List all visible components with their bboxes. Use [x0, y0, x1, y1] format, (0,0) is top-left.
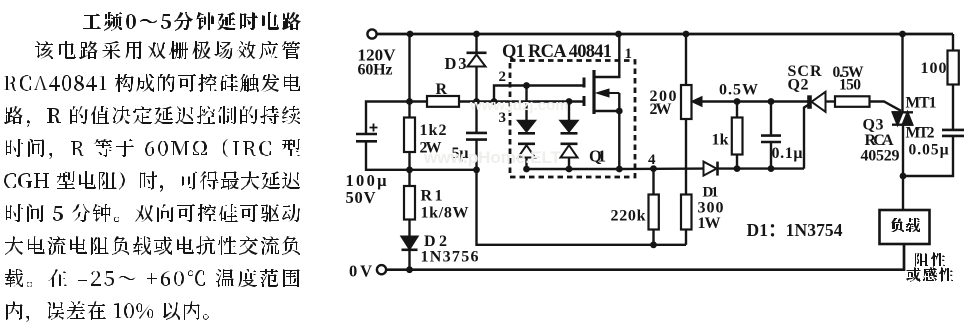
svg-text:50V: 50V — [346, 188, 376, 207]
node 0.05u return — [900, 173, 907, 180]
node 0.1u top — [768, 98, 775, 105]
svg-text:D3: D3 — [445, 54, 467, 73]
wire gate1 step — [494, 86, 584, 102]
svg-text:1k: 1k — [712, 132, 729, 149]
svg-text:60Hz: 60Hz — [358, 62, 393, 79]
wire D2 to rail — [408, 250, 410, 270]
capacitor 0.05u — [952, 85, 954, 130]
wire pin4 out — [619, 167, 704, 170]
capacitor 5u — [466, 133, 487, 140]
potentiometer 200 2W — [685, 34, 687, 85]
node top-B — [473, 31, 480, 38]
load box — [880, 210, 930, 244]
node pair2 bottom — [566, 166, 573, 173]
potentiometer wiper arrow — [693, 97, 702, 105]
svg-text:www.pHome.ELT: www.pHome.ELT — [423, 148, 562, 167]
svg-text:D1: D1 — [703, 185, 719, 201]
node top-A — [407, 31, 414, 38]
wire to R — [410, 100, 428, 102]
wire D1 to gate riser — [719, 167, 805, 169]
protection diode pair 1 — [518, 121, 535, 132]
svg-text:1k/8W: 1k/8W — [421, 205, 469, 222]
svg-text:220k: 220k — [611, 208, 646, 225]
wire 5u top — [475, 102, 477, 133]
node gate1 pair1 — [523, 82, 530, 89]
label load (fuzai) — [890, 218, 920, 232]
svg-text:0.1μ: 0.1μ — [772, 145, 803, 162]
node bottom row 220k — [650, 241, 657, 248]
resistor 150 0.5W — [835, 96, 870, 107]
mosfet Q1 drain — [595, 34, 619, 77]
wire SCR gate riser — [804, 104, 810, 169]
wire cap branch — [366, 102, 410, 134]
node rail-D2 — [406, 266, 413, 273]
wire top rail — [377, 33, 953, 36]
svg-text:100: 100 — [921, 60, 947, 77]
node mid-left — [406, 166, 413, 173]
svg-text:1: 1 — [625, 46, 633, 62]
wire 1k2 bottom — [408, 152, 410, 170]
svg-text:0.5W: 0.5W — [719, 82, 758, 99]
svg-text:Q2: Q2 — [788, 77, 809, 94]
wire cap to 0V row — [366, 141, 477, 170]
resistor 100 — [952, 34, 954, 51]
wire left drop — [408, 34, 410, 118]
svg-text:Q1: Q1 — [589, 147, 606, 166]
terminal 120V — [367, 29, 376, 38]
wire D3 to node — [475, 67, 477, 102]
thyristor SCR Q2 — [807, 95, 812, 109]
node mid-5u — [473, 166, 480, 173]
wire D3 top — [475, 34, 477, 53]
svg-text:1W: 1W — [698, 215, 721, 232]
wire 5u down to bottom node row — [477, 170, 687, 245]
svg-text:2: 2 — [499, 69, 507, 85]
terminal 0V — [377, 265, 386, 274]
wire pair1 drop — [525, 86, 527, 122]
resistor 300 1W — [681, 195, 692, 230]
node R-row — [406, 98, 413, 105]
protection diode pair 2 — [561, 121, 578, 132]
svg-text:R: R — [436, 81, 448, 98]
mosfet Q1 source — [595, 111, 619, 169]
capacitor 100u 50V — [356, 134, 377, 141]
description paragraph (Chinese) — [4, 12, 301, 322]
svg-text:40529: 40529 — [861, 148, 900, 165]
wire R1 to D2 — [408, 220, 410, 238]
svg-text:RCA: RCA — [865, 132, 894, 149]
diode D1 — [704, 162, 717, 176]
wire pin4 row — [527, 168, 620, 170]
mosfet Q1 substrate arrow — [608, 92, 619, 94]
svg-text:MT2: MT2 — [906, 125, 935, 142]
svg-text:Q3: Q3 — [863, 117, 884, 134]
wire pair2 drop — [568, 102, 570, 122]
node 1k bottom — [734, 165, 741, 172]
svg-text:0.05μ: 0.05μ — [909, 142, 949, 159]
node top-drain — [615, 31, 622, 38]
svg-text:1N3756: 1N3756 — [421, 249, 479, 266]
resistor 1k — [736, 102, 738, 118]
svg-text:0V: 0V — [349, 262, 372, 281]
wire triac to load — [902, 125, 904, 210]
mosfet Q1 gate bar 1 — [583, 78, 586, 88]
wire R1 top — [408, 170, 410, 186]
label inductive (ganxing) — [906, 267, 953, 282]
svg-text:R1: R1 — [421, 188, 443, 205]
svg-text:2W: 2W — [650, 101, 672, 118]
mosfet Q1 channel — [592, 70, 595, 114]
wire triac top — [901, 34, 903, 112]
node top-triac — [899, 31, 906, 38]
resistor 220k — [652, 169, 654, 195]
svg-text:300: 300 — [698, 200, 724, 217]
node 1k top — [734, 98, 741, 105]
wire bottom rail — [387, 244, 905, 270]
node top-pot — [683, 31, 690, 38]
dashed package Q1 — [510, 61, 635, 178]
wire 5u bottom — [475, 140, 477, 170]
node gate2 pair2 — [566, 98, 573, 105]
wire 150 to triac gate — [870, 102, 902, 111]
capacitor 0.1u — [770, 102, 772, 136]
mosfet Q1 gate bar 2 — [583, 96, 586, 106]
svg-text:1k2: 1k2 — [420, 122, 447, 139]
node source — [616, 108, 623, 115]
svg-text:150: 150 — [839, 77, 861, 94]
svg-text:Q1 RCA 40841: Q1 RCA 40841 — [502, 42, 612, 62]
wire SCR to 150 — [826, 100, 836, 102]
diode D2 — [402, 237, 418, 250]
svg-text:MT1: MT1 — [906, 95, 937, 112]
node step — [491, 98, 498, 105]
resistor 1k2 2W — [404, 118, 415, 153]
diode D3 — [467, 51, 487, 54]
svg-text:D1：1N3754: D1：1N3754 — [747, 220, 843, 240]
node 0.1u bottom — [768, 165, 775, 172]
resistor R — [427, 96, 459, 107]
node 220k top — [650, 165, 657, 172]
capacitor 100u plus — [370, 124, 378, 132]
node gates-junction — [473, 98, 480, 105]
node source bottom — [616, 166, 623, 173]
wire R to gates row — [459, 100, 584, 102]
svg-text:D2: D2 — [424, 233, 447, 250]
resistor R1 — [404, 186, 415, 220]
triac Q3 — [892, 112, 913, 124]
node pair1 bottom — [523, 166, 530, 173]
label resistive (zuxing) — [915, 252, 945, 267]
svg-text:www.jdzj.com: www.jdzj.com — [469, 97, 569, 114]
